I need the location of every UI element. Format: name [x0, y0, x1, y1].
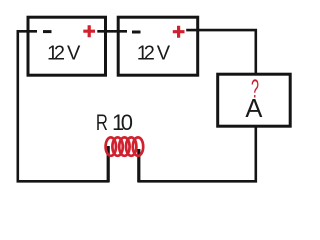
- svg-text:10: 10: [112, 110, 133, 135]
- battery B2 box: [118, 17, 198, 75]
- ammeter M1 box: [218, 74, 291, 126]
- resistor R1 coil loop 2: [112, 137, 122, 155]
- resistor R1 coil loop 5: [133, 137, 143, 155]
- svg-text:12V: 12V: [47, 43, 81, 65]
- battery B2 negative terminal (-): [132, 31, 141, 34]
- battery B1 box: [28, 17, 106, 75]
- resistor R1 coil loop 4: [126, 137, 136, 155]
- battery B1 negative terminal (-): [43, 30, 52, 33]
- wire: B2 positive terminal right then down to ammeter top: [186, 30, 256, 74]
- battery B1 positive terminal (+): [83, 25, 95, 37]
- resistor R1 left lead: [107, 146, 110, 182]
- svg-text:12V: 12V: [137, 43, 171, 65]
- resistor R1 right lead: [137, 149, 140, 182]
- resistor R1 coil loop 1: [106, 137, 116, 155]
- battery B2 positive terminal (+): [173, 26, 185, 38]
- wire: jumper between B1 positive and B2 negative: [97, 30, 127, 33]
- svg-text:R: R: [96, 110, 108, 135]
- resistor R1 coil loop 3: [119, 137, 129, 155]
- svg-text:A: A: [245, 95, 262, 123]
- wire: ammeter bottom down, along bottom to resistor right leg: [137, 126, 255, 181]
- wire: B1 negative terminal left, down, along bottom to resistor left leg: [18, 31, 110, 181]
